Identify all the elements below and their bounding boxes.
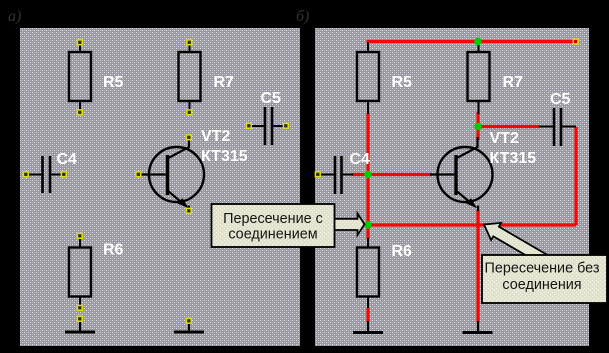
transistor VT2 (b) xyxy=(430,137,493,211)
svg-text:R5: R5 xyxy=(103,74,124,91)
svg-text:VT2: VT2 xyxy=(490,130,519,147)
callout box 2 xyxy=(482,255,607,303)
wire R6 bottom to ground (b) xyxy=(366,308,369,322)
svg-text:а): а) xyxy=(8,8,21,25)
wire collector to C5 left xyxy=(478,125,540,128)
wire emitter to ground xyxy=(476,210,479,322)
junction J4 bottom node xyxy=(364,221,372,229)
svg-text:Пересечение с: Пересечение с xyxy=(223,211,323,227)
svg-text:R6: R6 xyxy=(103,242,124,259)
capacitor C4 (b) xyxy=(315,156,353,194)
ground GND2 (panel a) xyxy=(174,318,204,332)
capacitor C4 xyxy=(23,156,66,193)
svg-text:C5: C5 xyxy=(550,91,571,108)
svg-text:R6: R6 xyxy=(392,243,413,260)
svg-text:C5: C5 xyxy=(261,90,282,107)
capacitor C5 (b) xyxy=(539,108,576,146)
resistor R5 xyxy=(69,40,91,115)
ground GND1 (panel a) xyxy=(65,316,95,332)
svg-text:КТ315: КТ315 xyxy=(490,150,537,167)
resistor R5 (b) xyxy=(357,42,379,114)
resistor R6 xyxy=(69,233,91,310)
transistor VT2 xyxy=(136,135,204,213)
svg-text:Пересечение без: Пересечение без xyxy=(485,261,600,277)
callout arrow 1 (to J4) xyxy=(334,214,365,236)
panel b background xyxy=(315,28,589,346)
wire base rail C4 to VT2 xyxy=(352,173,432,176)
svg-text:КТ315: КТ315 xyxy=(201,148,248,165)
panel a background xyxy=(20,28,300,346)
ground GND1 (panel b) xyxy=(353,321,383,333)
resistor R6 (b) xyxy=(357,238,379,310)
svg-text:соединением: соединением xyxy=(228,227,317,243)
wire bottom rail J4 to C5 drop xyxy=(368,223,576,226)
wire top rail xyxy=(367,40,577,43)
junction J3 base node xyxy=(364,171,372,179)
resistor R7 xyxy=(179,40,201,115)
junction J1 top rail at R7 xyxy=(474,38,482,46)
wire R5.b vertical to R6.b xyxy=(366,113,369,239)
junction J2 collector node xyxy=(474,123,482,131)
svg-text:R5: R5 xyxy=(392,74,413,91)
pin top-right open end xyxy=(573,39,578,44)
svg-text:б): б) xyxy=(296,8,309,25)
wire R7 bottom to collector xyxy=(476,112,479,140)
svg-text:R7: R7 xyxy=(214,74,235,91)
resistor R7 (b) xyxy=(468,43,490,114)
capacitor C5 xyxy=(246,107,288,145)
callout box 1 xyxy=(212,204,335,247)
callout arrow 2 (to crossing) xyxy=(484,223,548,265)
wire C5 right drop xyxy=(574,127,577,225)
ground GND2 (panel b) xyxy=(463,321,493,333)
svg-text:соединения: соединения xyxy=(502,277,581,293)
svg-text:VT2: VT2 xyxy=(201,128,230,145)
svg-text:C4: C4 xyxy=(57,151,78,168)
svg-text:R7: R7 xyxy=(503,74,524,91)
svg-text:C4: C4 xyxy=(350,151,371,168)
